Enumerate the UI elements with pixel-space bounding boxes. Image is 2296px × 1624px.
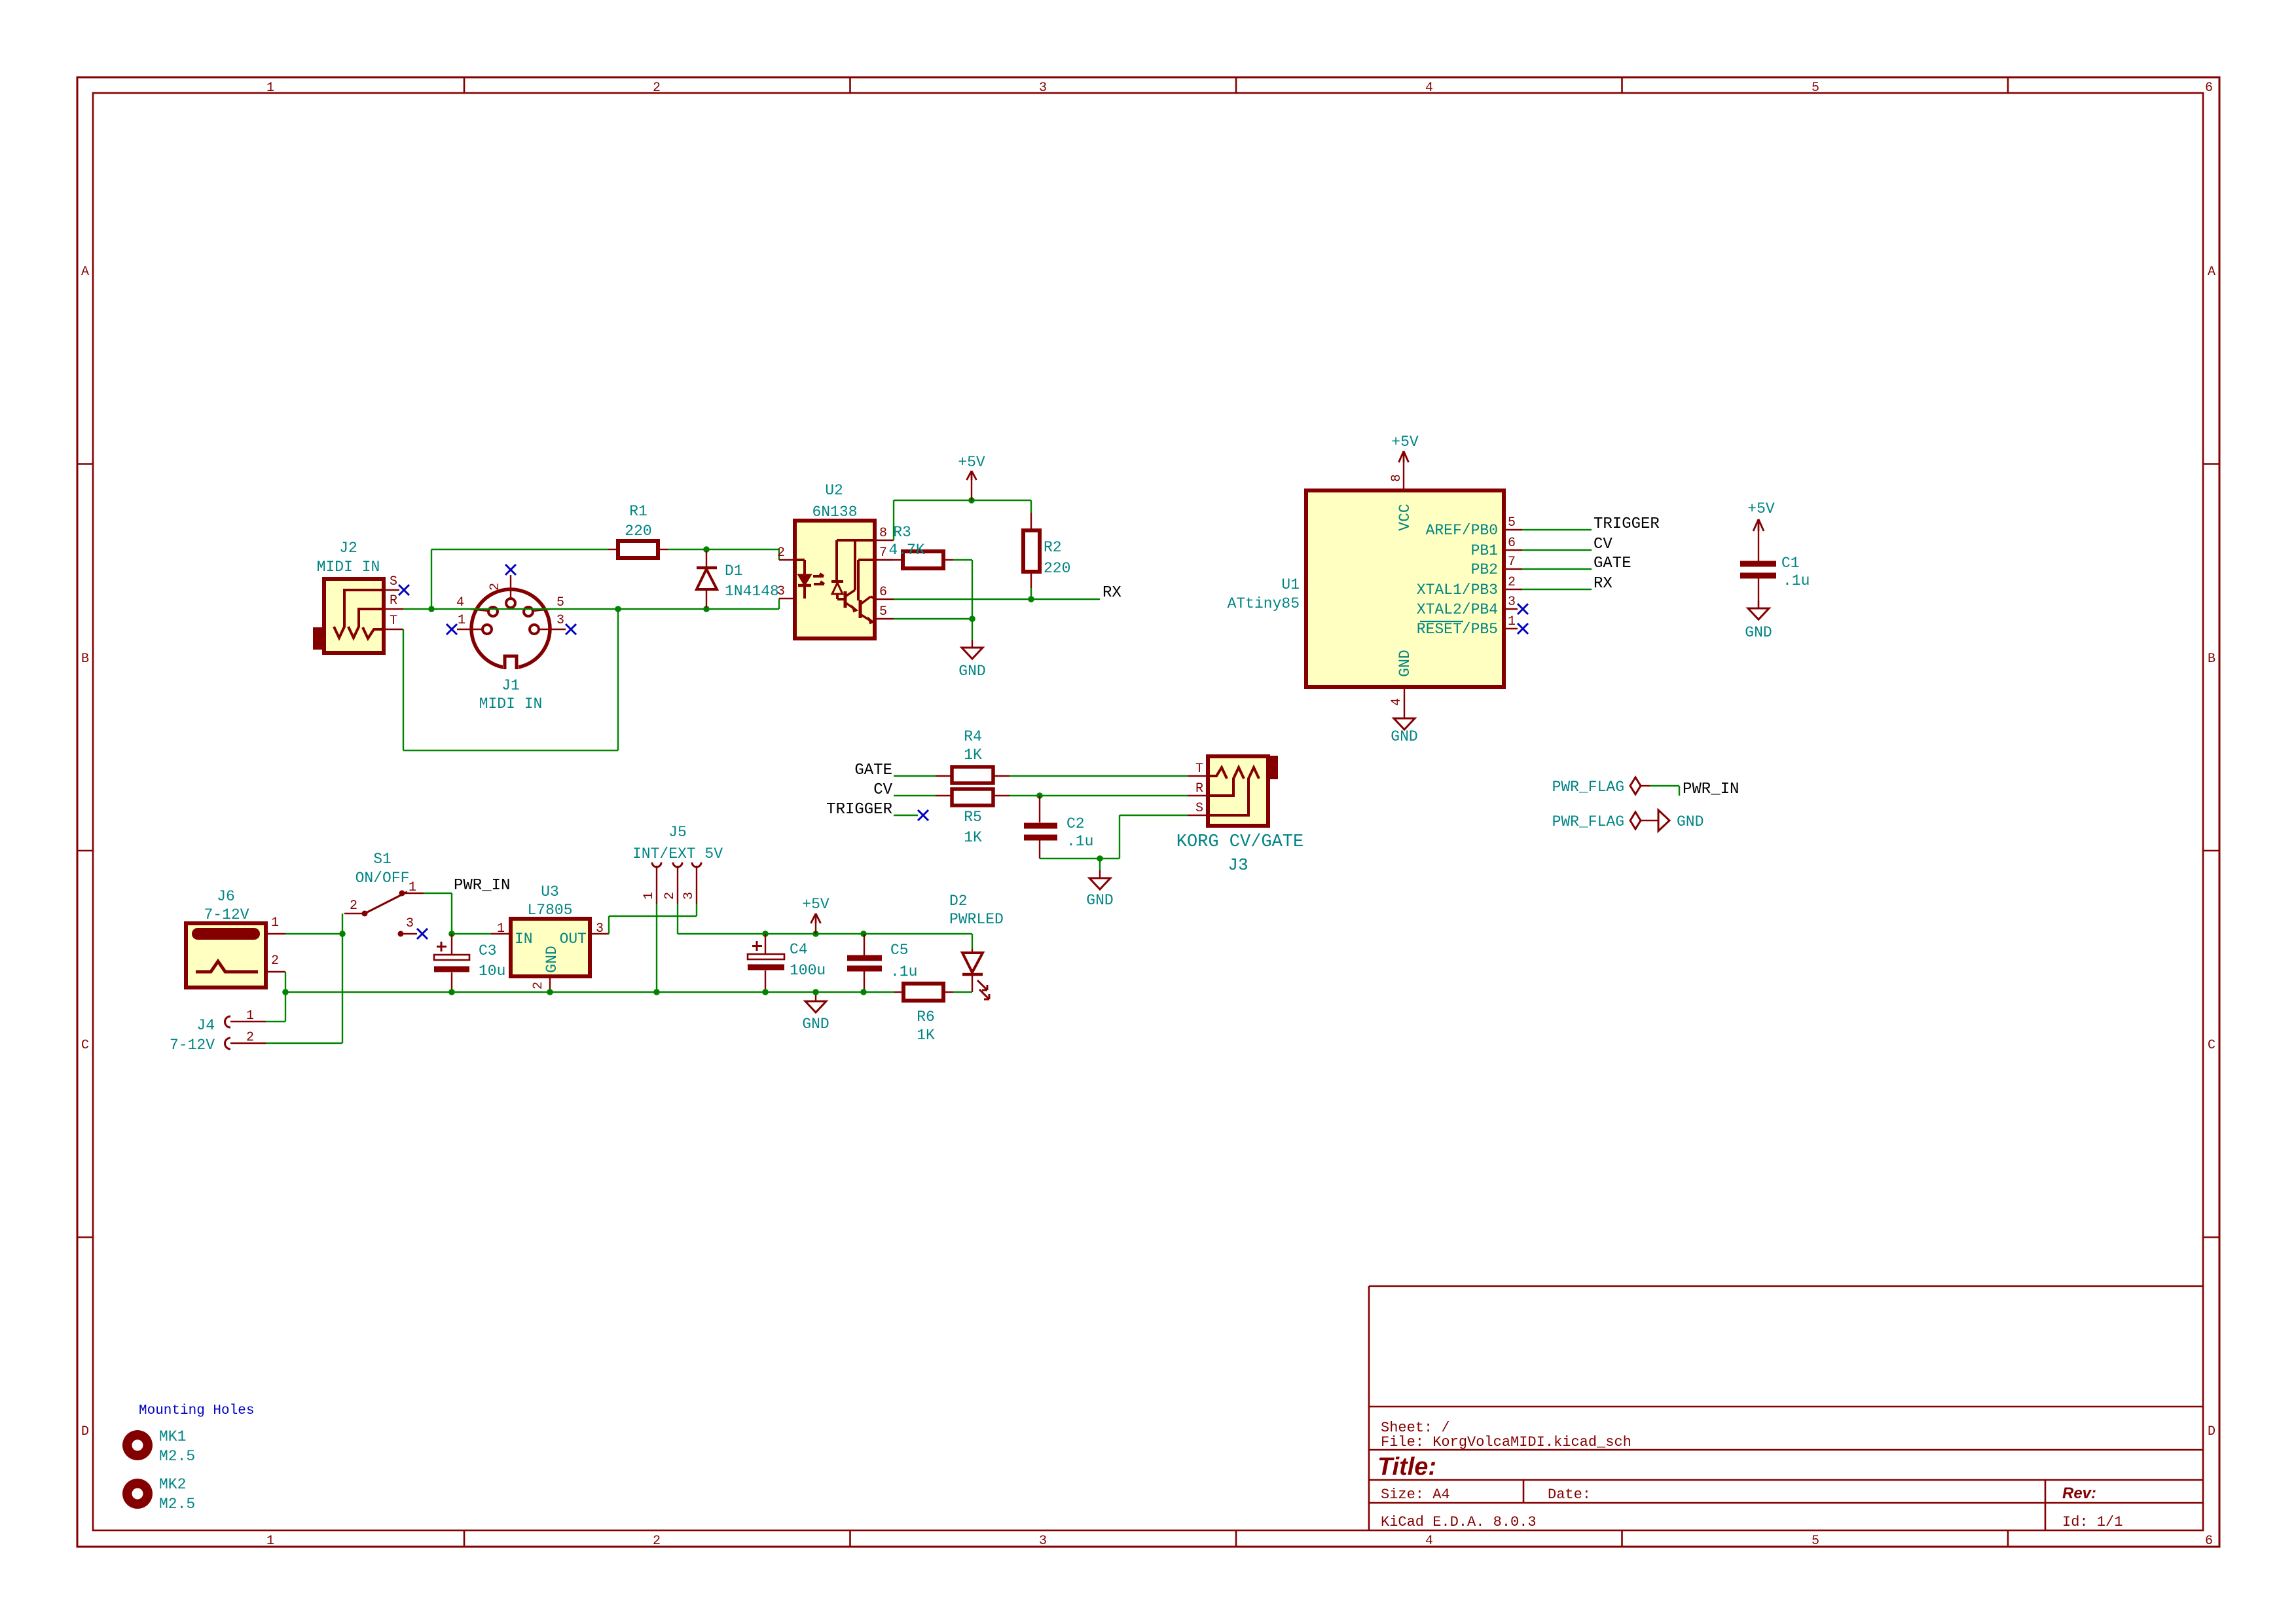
U1 pin VCC [1389, 462, 1413, 531]
U1 reference [1281, 576, 1300, 593]
wire pin6 RX [894, 599, 1100, 600]
svg-text:2: 2 [246, 1030, 254, 1045]
J3 pin R [1188, 781, 1208, 796]
connector J4 pin1 [225, 1008, 266, 1027]
label RX at U1 [1594, 575, 1613, 593]
connector J1 DIN circle [471, 589, 550, 671]
U2 pin 6 [875, 585, 894, 600]
no-connect X on J1 pin1 [446, 624, 457, 635]
resistor R1 [608, 541, 668, 558]
wire D2 to R6 [953, 991, 972, 993]
svg-text:100u: 100u [790, 962, 826, 979]
C4 value 100u [790, 962, 826, 979]
svg-text:8: 8 [879, 526, 887, 541]
ground symbol at C1 [1745, 600, 1772, 641]
svg-text:Size: A4: Size: A4 [1381, 1486, 1450, 1503]
svg-text:7-12V: 7-12V [170, 1037, 215, 1054]
U3 reference [541, 883, 559, 900]
junction +5V rail [812, 931, 819, 937]
svg-text:3: 3 [556, 613, 564, 628]
mcu U1 body [1306, 490, 1504, 687]
svg-text:2: 2 [1508, 575, 1516, 590]
svg-text:RX: RX [1594, 575, 1613, 593]
svg-text:PWR_IN: PWR_IN [454, 877, 510, 895]
svg-text:D: D [81, 1424, 89, 1439]
svg-text:R6: R6 [917, 1008, 935, 1025]
regulator U3 body [511, 919, 590, 976]
svg-text:D2: D2 [949, 893, 968, 910]
svg-text:Rev:: Rev: [2062, 1485, 2096, 1502]
C2 reference [1066, 815, 1085, 832]
label GATE [1594, 555, 1631, 572]
capacitor C5 [847, 934, 882, 992]
U2 photodiode [831, 581, 845, 599]
svg-text:2: 2 [271, 953, 279, 969]
R1 reference [629, 503, 647, 520]
svg-text:2: 2 [777, 545, 785, 561]
switch S1 [344, 891, 424, 937]
wire +5V distribution [678, 933, 972, 934]
svg-text:4.7K: 4.7K [888, 542, 924, 559]
U1 value ATtiny85 [1228, 595, 1300, 612]
no-connect X on U1 pin1 [1518, 623, 1528, 634]
wire R2 bottom [1030, 572, 1032, 599]
title block text Date [1548, 1486, 1591, 1503]
junction C2-GND [1097, 855, 1103, 862]
svg-text:B: B [81, 652, 89, 667]
svg-text:C1: C1 [1781, 555, 1800, 572]
no-connect X on U1 pin3 [1518, 604, 1528, 614]
svg-text:INT/EXT 5V: INT/EXT 5V [632, 845, 723, 862]
svg-text:PWR_FLAG: PWR_FLAG [1552, 813, 1624, 830]
svg-text:R: R [1195, 781, 1203, 796]
diode D1 [697, 551, 717, 608]
wire R2 top [1030, 500, 1032, 530]
ground symbol at C2 [1086, 870, 1113, 909]
svg-text:2: 2 [663, 892, 678, 900]
svg-text:+5V: +5V [1747, 500, 1775, 517]
connector J4 pin2 [225, 1030, 266, 1049]
svg-text:T: T [390, 614, 397, 629]
U1 pin 5 AREF/PB0 [1426, 515, 1522, 539]
junction C5 bottom [860, 989, 867, 995]
svg-text:220: 220 [1044, 560, 1070, 577]
no-connect X on S1 pin3 [417, 929, 428, 939]
svg-text:+5V: +5V [1391, 434, 1419, 451]
capacitor C3 [434, 934, 469, 992]
ground symbol at U2 [958, 640, 985, 680]
J3 pin S [1188, 801, 1208, 816]
label CV [1594, 536, 1613, 553]
resistor R4 [936, 767, 1010, 783]
J6 value 7-12V [204, 906, 249, 923]
no-connect X on J1 pin3 [566, 624, 576, 635]
junction rail left [282, 989, 289, 995]
svg-text:.1u: .1u [1783, 572, 1810, 589]
title block frame [1369, 1286, 2203, 1530]
junction R2-RX [1028, 596, 1034, 602]
svg-text:S: S [1195, 801, 1203, 816]
capacitor C2 [1024, 796, 1057, 858]
svg-text:KiCad E.D.A. 8.0.3: KiCad E.D.A. 8.0.3 [1381, 1514, 1537, 1530]
svg-text:1N4148: 1N4148 [725, 583, 779, 600]
wire R4 to J3 T [1010, 775, 1188, 777]
svg-text:3: 3 [682, 892, 697, 900]
power symbol GND sideways [1658, 810, 1704, 831]
svg-text:1K: 1K [917, 1027, 935, 1044]
svg-text:C2: C2 [1066, 815, 1085, 832]
U2 internal LED [795, 560, 811, 599]
no-connect X on J2 pin S [399, 585, 409, 595]
svg-text:T: T [1195, 762, 1203, 777]
svg-text:2: 2 [488, 583, 503, 591]
svg-text:J6: J6 [217, 888, 235, 905]
svg-text:+5V: +5V [802, 896, 829, 913]
svg-text:RESET/PB5: RESET/PB5 [1417, 621, 1498, 638]
svg-text:GND: GND [543, 946, 560, 972]
svg-text:Id: 1/1: Id: 1/1 [2062, 1514, 2123, 1530]
J4 reference [196, 1017, 215, 1034]
svg-text:J4: J4 [196, 1017, 215, 1034]
svg-text:R4: R4 [964, 728, 982, 745]
wire D1 node to U2 pin2 elbow [706, 549, 779, 560]
wire R1 to D1 node [668, 549, 706, 550]
wire C2 to GND node [1040, 858, 1100, 859]
J1 pad pin2 [488, 575, 515, 608]
J1 pad pin1 [457, 613, 492, 634]
title block text Size [1381, 1486, 1450, 1503]
J6 reference [217, 888, 235, 905]
junction switch node [339, 931, 346, 937]
U3 label GND [543, 946, 560, 972]
J2 pin S [384, 574, 399, 590]
wire elbow to U2 pin3 [778, 599, 780, 609]
R3 reference [893, 524, 911, 541]
U1 pin 1 RESET/PB5 [1417, 614, 1518, 638]
svg-text:U1: U1 [1281, 576, 1300, 593]
wire GND node to J3 S elbow [1100, 815, 1188, 858]
main MIDI wire [431, 608, 779, 610]
svg-text:MIDI IN: MIDI IN [317, 559, 380, 576]
svg-text:1: 1 [409, 880, 416, 895]
label PWR_IN [454, 877, 510, 895]
wire GATE [1522, 568, 1592, 570]
svg-text:U2: U2 [825, 482, 843, 499]
D1 value 1N4148 [725, 583, 779, 600]
svg-text:+5V: +5V [958, 454, 985, 471]
svg-text:5: 5 [1508, 515, 1516, 530]
svg-text:GND: GND [1677, 813, 1704, 830]
svg-text:2: 2 [653, 81, 661, 96]
C1 value .1u [1783, 572, 1810, 589]
svg-text:R: R [390, 593, 397, 608]
svg-text:2: 2 [531, 982, 546, 989]
svg-text:7: 7 [1508, 555, 1516, 570]
mounting hole MK2 [122, 1476, 195, 1513]
svg-text:C4: C4 [790, 941, 808, 958]
led D2 [962, 949, 989, 999]
note Mounting Holes [139, 1403, 254, 1418]
junction J5-1 rail [653, 989, 660, 995]
wire pin5 [894, 618, 972, 619]
svg-text:A: A [81, 265, 89, 280]
mounting hole MK1 [122, 1428, 195, 1465]
U2 reference [825, 482, 843, 499]
U2 transistor Q2 [858, 560, 875, 623]
junction C5 top [860, 931, 867, 937]
connector J6 body [186, 923, 266, 987]
svg-text:5: 5 [879, 604, 887, 619]
svg-text:3: 3 [406, 916, 414, 931]
J1 pad pin3 [530, 613, 566, 634]
svg-text:MK2: MK2 [159, 1476, 186, 1493]
svg-text:VCC: VCC [1396, 504, 1413, 530]
S1 value ON/OFF [355, 870, 410, 887]
label CV left [873, 781, 892, 799]
U1 pin 6 PB1 [1471, 536, 1522, 559]
svg-text:4: 4 [456, 595, 464, 610]
wire TRIGGER [1522, 529, 1592, 530]
svg-text:GND: GND [1745, 624, 1772, 641]
label GATE left [854, 762, 892, 779]
S1 pin3 number [406, 916, 414, 931]
junction R1-D1 [703, 546, 710, 553]
J5 reference [668, 824, 687, 841]
D2 reference [949, 893, 968, 910]
junction C4 top [762, 931, 769, 937]
svg-text:PWRLED: PWRLED [949, 911, 1004, 928]
junction J1 pin5 to T-loop [615, 606, 621, 612]
R2 reference [1044, 539, 1062, 556]
wire T-loop up [617, 609, 619, 750]
junction U3 GND [547, 989, 553, 995]
svg-text:2: 2 [653, 1534, 661, 1549]
svg-text:PWR_FLAG: PWR_FLAG [1552, 779, 1624, 796]
svg-text:1: 1 [497, 921, 505, 936]
wire node up to R1 row [431, 549, 432, 609]
C5 value .1u [890, 963, 917, 980]
J1 value MIDI IN [479, 695, 543, 712]
svg-text:GND: GND [958, 663, 985, 680]
wire J4-2 to vertical [266, 1043, 342, 1044]
svg-text:Title:: Title: [1377, 1453, 1436, 1481]
svg-text:6: 6 [2205, 81, 2213, 96]
svg-text:4: 4 [1425, 81, 1433, 96]
U1 pin 2 XTAL1/PB3 [1417, 575, 1522, 599]
wire J5-2 down [677, 904, 678, 934]
ground rail wire [285, 991, 894, 993]
svg-text:M2.5: M2.5 [159, 1448, 195, 1465]
wire CV [1522, 549, 1592, 551]
svg-text:IN: IN [515, 931, 533, 948]
label TRIGGER left [826, 801, 892, 819]
wire TRIGGER stub [894, 815, 918, 816]
wire PWR_FLAG to PWR_IN [1650, 786, 1679, 796]
svg-text:1K: 1K [964, 747, 982, 764]
resistor R3 [875, 551, 953, 568]
wire S1-1 to PWR_IN corner [424, 893, 452, 934]
wire +5V rail to R2 [894, 500, 1031, 501]
svg-text:4: 4 [1425, 1534, 1433, 1549]
capacitor C4 [748, 934, 784, 992]
J3 pin T [1188, 762, 1208, 777]
svg-text:3: 3 [1508, 595, 1516, 610]
U2 pin 3 [777, 584, 795, 599]
svg-text:R5: R5 [964, 809, 982, 826]
power symbol +5V at U2 [958, 454, 985, 500]
no-connect X on TRIGGER [918, 810, 928, 821]
S1 reference [373, 851, 392, 868]
R1 value 220 [625, 523, 651, 540]
svg-text:B: B [2208, 652, 2215, 667]
svg-text:S1: S1 [373, 851, 392, 868]
svg-text:L7805: L7805 [527, 902, 572, 919]
wire J4-1 riser [266, 992, 285, 1022]
U1 pin 7 PB2 [1471, 555, 1522, 578]
svg-text:8: 8 [1389, 474, 1404, 482]
wire GND stem U2 [972, 619, 973, 640]
svg-text:TRIGGER: TRIGGER [826, 801, 892, 819]
wire R3 to GND node [953, 560, 972, 619]
power flag PWR_FLAG 2 [1552, 812, 1658, 830]
label PWR_IN at flag [1683, 781, 1739, 798]
power symbol +5V at rail [802, 896, 829, 934]
svg-text:XTAL1/PB3: XTAL1/PB3 [1417, 581, 1498, 599]
capacitor C1 [1740, 564, 1776, 608]
U3 pin 2 GND [531, 976, 550, 992]
svg-text:6: 6 [879, 585, 887, 600]
C5 reference [890, 942, 909, 959]
svg-text:ON/OFF: ON/OFF [355, 870, 410, 887]
S1 pin1 number [409, 880, 416, 895]
svg-text:R1: R1 [629, 503, 647, 520]
U3 pin 3 [590, 921, 609, 936]
resistor R6 [894, 984, 953, 1001]
R3 value 4.7K [888, 542, 924, 559]
svg-text:GND: GND [802, 1016, 829, 1033]
svg-text:GND: GND [1391, 728, 1417, 745]
title block text Rev [2062, 1485, 2096, 1502]
svg-text:R2: R2 [1044, 539, 1062, 556]
wire T-loop bottom [403, 750, 618, 751]
svg-text:GATE: GATE [854, 762, 892, 779]
J6 pin 2 [266, 953, 285, 972]
U3 label OUT [560, 931, 587, 948]
wire pre-switch vertical [342, 913, 343, 1043]
svg-text:File: KorgVolcaMIDI.kicad_sch: File: KorgVolcaMIDI.kicad_sch [1381, 1434, 1631, 1450]
J1 pad pin4 [456, 595, 498, 616]
junction pin5-GND [969, 616, 975, 622]
svg-text:XTAL2/PB4: XTAL2/PB4 [1417, 601, 1498, 618]
svg-text:AREF/PB0: AREF/PB0 [1426, 522, 1498, 539]
resistor R5 [936, 789, 1010, 805]
svg-text:R3: R3 [893, 524, 911, 541]
svg-text:220: 220 [625, 523, 651, 540]
R4 reference [964, 728, 982, 745]
svg-text:5: 5 [556, 595, 564, 610]
junction D1 bottom [703, 606, 710, 612]
wire GATE to R4 [894, 775, 936, 777]
U2 pin 2 [777, 545, 795, 561]
svg-text:7-12V: 7-12V [204, 906, 249, 923]
wire J5-3 drop [696, 904, 697, 916]
no-connect X on J1 pin2 [505, 564, 516, 575]
svg-text:S: S [390, 574, 397, 589]
C2 value .1u [1066, 833, 1093, 850]
svg-text:PWR_IN: PWR_IN [1683, 781, 1739, 798]
svg-text:M2.5: M2.5 [159, 1496, 195, 1513]
svg-text:C3: C3 [479, 942, 497, 959]
svg-text:1: 1 [271, 915, 279, 931]
U3 pin 1 [491, 921, 511, 936]
optocoupler U2 body [795, 521, 875, 638]
svg-text:A: A [2208, 265, 2215, 280]
J6 pin 1 [266, 915, 285, 934]
connector J5 [642, 862, 701, 904]
wire to U3 IN [452, 933, 491, 934]
J1 reference [501, 677, 520, 694]
svg-text:C5: C5 [890, 942, 909, 959]
U3 value L7805 [527, 902, 572, 919]
svg-text:.1u: .1u [1066, 833, 1093, 850]
svg-text:D1: D1 [725, 563, 743, 580]
C1 reference [1781, 555, 1800, 572]
svg-text:GATE: GATE [1594, 555, 1631, 572]
wire OUT elbow [609, 916, 697, 934]
U2 pin 5 [875, 604, 894, 619]
U2 pin 7 [875, 545, 893, 561]
connector J3 body [1208, 756, 1277, 826]
wire J2-T down [403, 629, 404, 750]
connector J2 body [314, 579, 384, 653]
R5 value 1K [964, 829, 982, 846]
svg-text:KORG CV/GATE: KORG CV/GATE [1176, 832, 1303, 852]
svg-text:ATtiny85: ATtiny85 [1228, 595, 1300, 612]
svg-text:Date:: Date: [1548, 1486, 1591, 1503]
J2 pin T [384, 614, 403, 629]
title block text Id [2062, 1514, 2123, 1530]
C3 value 10u [479, 963, 505, 980]
U1 pin 3 XTAL2/PB4 [1417, 595, 1518, 618]
R5 reference [964, 809, 982, 826]
label TRIGGER [1594, 515, 1660, 533]
svg-text:2: 2 [350, 898, 357, 913]
R6 value 1K [917, 1027, 935, 1044]
title block text Sheet [1381, 1420, 1450, 1436]
C3 reference [479, 942, 497, 959]
svg-text:MIDI IN: MIDI IN [479, 695, 543, 712]
svg-text:3: 3 [1039, 1534, 1047, 1549]
J3 value KORG CV/GATE [1176, 832, 1303, 852]
svg-text:J5: J5 [668, 824, 687, 841]
svg-text:5: 5 [1812, 1534, 1819, 1549]
J4 value 7-12V [170, 1037, 215, 1054]
junction +5V node [968, 497, 975, 504]
svg-text:PB1: PB1 [1471, 542, 1498, 559]
title block text KiCad version [1381, 1514, 1537, 1530]
svg-text:CV: CV [873, 781, 892, 799]
svg-text:GND: GND [1396, 650, 1413, 676]
svg-text:7: 7 [879, 545, 887, 561]
title block text File [1381, 1434, 1631, 1450]
svg-text:C: C [2208, 1038, 2215, 1053]
J3 reference [1228, 855, 1248, 875]
D1 reference [725, 563, 743, 580]
ground symbol at U1 [1391, 710, 1417, 745]
wire RX [1522, 589, 1592, 590]
svg-text:TRIGGER: TRIGGER [1594, 515, 1660, 533]
svg-text:CV: CV [1594, 536, 1613, 553]
